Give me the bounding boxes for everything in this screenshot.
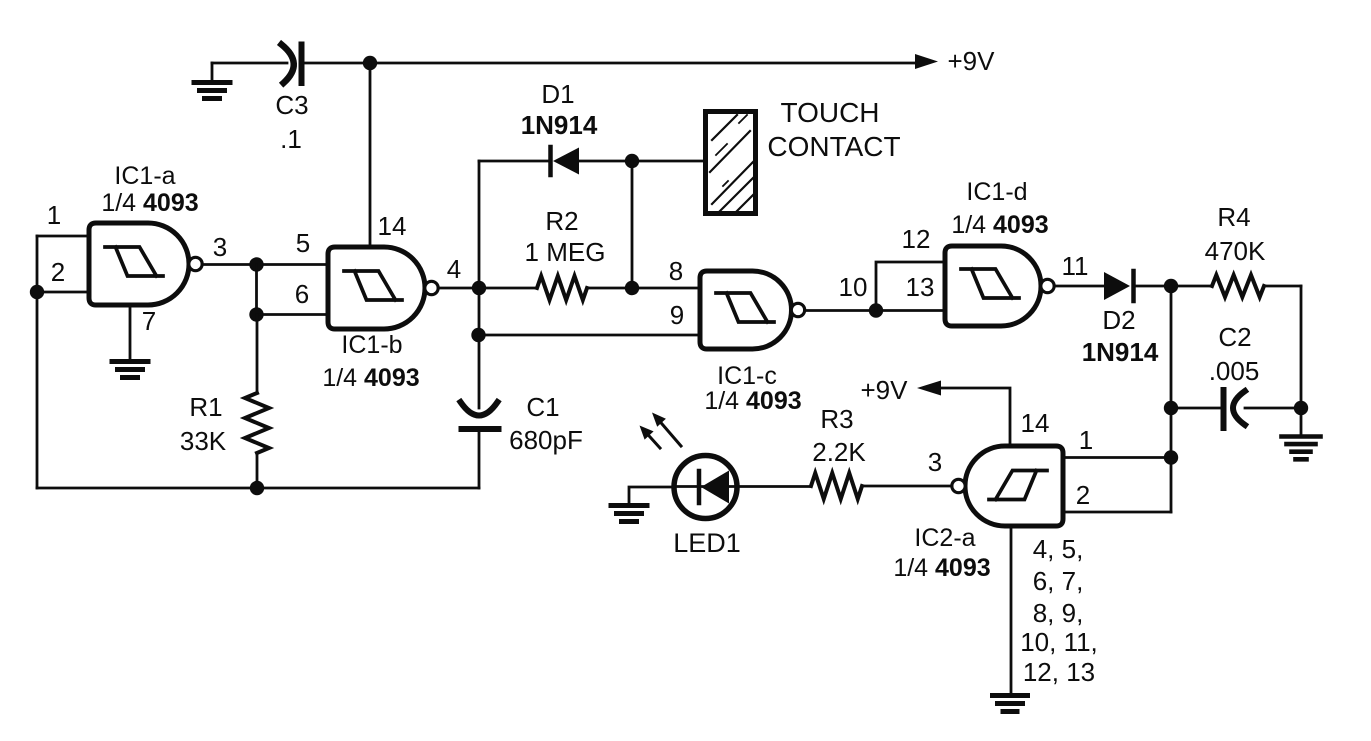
- svg-text:1/4 4093: 1/4 4093: [893, 554, 990, 582]
- wire: IC1-a pin 3 output to IC1-b pin 5: [202, 263, 328, 266]
- svg-text:IC1-c: IC1-c: [717, 362, 777, 390]
- junction: R2 / IC1-c pin 8: [625, 281, 639, 295]
- svg-text:12: 12: [902, 224, 931, 254]
- svg-text:IC1-a: IC1-a: [114, 162, 175, 190]
- svg-text:R1: R1: [189, 392, 222, 422]
- wire: IC1-b pin 6: [257, 313, 329, 316]
- svg-text:1 MEG: 1 MEG: [525, 237, 606, 267]
- ground (LED1): [611, 506, 647, 522]
- svg-text:33K: 33K: [180, 426, 227, 456]
- svg-text:6: 6: [295, 279, 309, 309]
- svg-text:.1: .1: [280, 124, 302, 154]
- junction: +9V rail / IC1-b pin 14: [363, 56, 377, 70]
- junction: D1 / touch-contact / R2 node: [625, 154, 639, 168]
- svg-text:6, 7,: 6, 7,: [1033, 566, 1084, 596]
- +9V arrow (top right): [915, 54, 938, 69]
- wire: IC1-b pin 14 from +9V rail: [369, 63, 372, 247]
- svg-text:2: 2: [51, 257, 65, 287]
- svg-text:1/4 4093: 1/4 4093: [951, 211, 1048, 239]
- wire: IC1-d pin 11 output: [1054, 285, 1104, 288]
- ground (IC2-a pins): [993, 696, 1028, 712]
- ground (top-left, C3 left plate): [211, 63, 214, 81]
- svg-text:1/4 4093: 1/4 4093: [322, 364, 419, 392]
- svg-text:3: 3: [928, 447, 942, 477]
- wire: right vertical R4 to C2: [1300, 286, 1303, 408]
- svg-text:10, 11,: 10, 11,: [1020, 627, 1098, 657]
- wire: IC1-a pin 2: [37, 291, 89, 294]
- svg-text:R4: R4: [1217, 202, 1250, 232]
- svg-text:680pF: 680pF: [509, 425, 583, 455]
- touch contact plate: [706, 112, 756, 214]
- wire: node vertical pin3 to pin6: [255, 265, 258, 315]
- svg-text:R2: R2: [545, 206, 578, 236]
- wire: IC2-a pin 2: [1063, 511, 1171, 514]
- svg-text:4: 4: [447, 254, 461, 284]
- svg-text:10: 10: [839, 272, 868, 302]
- junction: C2 right: [1294, 401, 1308, 415]
- svg-text:R3: R3: [820, 404, 853, 434]
- NAND gate IC1-c (1/4 4093): [700, 271, 805, 349]
- svg-text:13: 13: [906, 272, 935, 302]
- junction: pin 10 node: [869, 303, 883, 317]
- svg-text:12, 13: 12, 13: [1023, 657, 1095, 687]
- junction: pin 4 node: [472, 281, 486, 295]
- resistor R2: [479, 276, 700, 300]
- svg-text:1N914: 1N914: [521, 110, 598, 140]
- svg-text:D1: D1: [541, 79, 574, 109]
- svg-text:8, 9,: 8, 9,: [1033, 598, 1084, 628]
- capacitor C1: [461, 402, 499, 488]
- svg-text:2: 2: [1076, 480, 1090, 510]
- junction: C2 left: [1164, 401, 1178, 415]
- svg-text:14: 14: [378, 211, 407, 241]
- svg-text:TOUCH: TOUCH: [780, 97, 879, 128]
- svg-text:1: 1: [1079, 425, 1093, 455]
- svg-text:C2: C2: [1218, 322, 1251, 352]
- svg-text:LED1: LED1: [673, 528, 741, 558]
- svg-text:8: 8: [669, 256, 683, 286]
- svg-text:IC1-b: IC1-b: [341, 331, 402, 359]
- svg-text:+9V: +9V: [861, 375, 909, 405]
- junction: node pin3/pin5/R1: [249, 257, 263, 271]
- svg-text:+9V: +9V: [948, 46, 996, 76]
- resistor R3: [811, 473, 862, 499]
- wire: D1 to touch contact: [579, 160, 704, 163]
- wire: D1 row left lead: [479, 160, 549, 163]
- junction: D2 / R4 / C2 node: [1164, 279, 1178, 293]
- ground (IC1-a pin 7): [112, 362, 148, 378]
- svg-text:IC2-a: IC2-a: [914, 524, 975, 552]
- diode D2 (1N914): [1104, 271, 1134, 301]
- NAND gate IC2-a (1/4 4093): [952, 446, 1063, 526]
- junction: IC2-a pin 1 node: [1164, 450, 1178, 464]
- resistor R4: [1212, 275, 1301, 297]
- ground (C2 right): [1300, 408, 1303, 434]
- svg-text:2.2K: 2.2K: [812, 437, 866, 467]
- wire: left vertical D2 node to pin 2: [1170, 286, 1173, 512]
- wire: IC2-a pin 1: [1063, 456, 1171, 459]
- wire: top +9V rail, C3 to arrow: [305, 62, 917, 65]
- svg-text:C3: C3: [275, 90, 308, 120]
- LED LED1: [674, 456, 737, 519]
- wire: IC1-c pin 10 output to IC1-d pin 13: [805, 309, 946, 312]
- svg-text:3: 3: [213, 232, 227, 262]
- wire: IC1-a pin 1: [37, 235, 89, 238]
- LED1 emission arrows: [640, 413, 682, 449]
- NAND gate IC1-b (1/4 4093): [328, 247, 438, 329]
- svg-text:C1: C1: [526, 392, 559, 422]
- svg-text:7: 7: [142, 306, 156, 336]
- svg-text:D2: D2: [1102, 305, 1135, 335]
- resistor R1: [245, 315, 269, 489]
- svg-text:11: 11: [1062, 251, 1089, 281]
- svg-text:CONTACT: CONTACT: [767, 131, 900, 162]
- wire: IC2-a pin 3 output to R3: [862, 485, 952, 488]
- svg-text:470K: 470K: [1205, 236, 1266, 266]
- junction: node pin6/R1: [249, 307, 263, 321]
- wire: touch node vertical to R2/pin8 node: [631, 161, 634, 288]
- wire: IC1-a pin 7 to ground: [129, 305, 132, 359]
- +9V arrow (IC2-a pin 14): [917, 381, 941, 396]
- capacitor C2: [1171, 390, 1301, 428]
- wire: IC1-b pin 4 output: [438, 287, 479, 290]
- wire: LED1 to ground: [629, 487, 674, 503]
- wire: IC2-a pin 14 to +9V: [941, 388, 1010, 446]
- svg-text:5: 5: [296, 228, 310, 258]
- junction: pin 2 / left rail: [30, 285, 44, 299]
- capacitor C3: [282, 45, 302, 84]
- svg-text:14: 14: [1021, 408, 1050, 438]
- wire: pin4 node vertical (D1 row down to C1): [478, 161, 481, 408]
- wire: left rail (pin1/pin2 down to bottom rail): [36, 236, 39, 488]
- wire: top +9V rail, ground to C3: [212, 62, 287, 65]
- junction: pin 9 node: [471, 328, 485, 342]
- NAND gate IC1-a (1/4 4093): [89, 223, 202, 305]
- svg-text:1: 1: [47, 200, 61, 230]
- NAND gate IC1-d (1/4 4093): [945, 246, 1054, 326]
- wire: R3 to LED1: [737, 485, 811, 488]
- svg-text:IC1-d: IC1-d: [966, 178, 1027, 206]
- svg-text:1/4 4093: 1/4 4093: [704, 387, 801, 415]
- wire: IC1-d pin 12 bracket: [876, 262, 945, 311]
- wire: bottom rail: [37, 487, 479, 490]
- svg-text:1/4 4093: 1/4 4093: [101, 189, 198, 217]
- wire: IC2-a pin 7 (pins 4-13) to ground: [1010, 526, 1013, 693]
- wire: D2 to R4: [1134, 285, 1213, 288]
- junction: R1 / bottom rail: [250, 481, 264, 495]
- svg-text:9: 9: [670, 300, 684, 330]
- svg-text:1N914: 1N914: [1082, 337, 1159, 367]
- diode D1 (1N914): [551, 147, 580, 175]
- svg-text:.005: .005: [1209, 356, 1260, 386]
- svg-text:4, 5,: 4, 5,: [1033, 534, 1084, 564]
- wire: IC1-c pin 9: [479, 334, 701, 337]
